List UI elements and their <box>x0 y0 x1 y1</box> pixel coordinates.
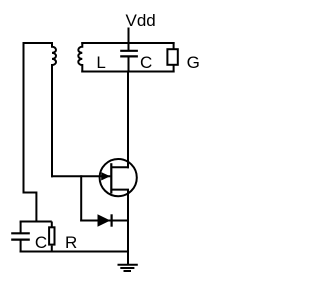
component G top lead <box>173 42 175 50</box>
inductor feedback coil <box>52 42 56 70</box>
diode D1 triangle <box>98 214 111 226</box>
wire left main vertical <box>24 42 37 223</box>
component G bottom lead <box>173 65 175 73</box>
wire top-left horizontal <box>23 42 53 44</box>
wire drain vertical <box>127 72 129 169</box>
wire Vdd lead <box>128 28 130 45</box>
component G box <box>167 49 177 65</box>
resistor R top lead <box>51 222 53 228</box>
ground symbol <box>118 265 138 271</box>
wire tank bottom rail <box>81 71 174 73</box>
capacitor C top plate <box>120 50 138 52</box>
transistor Q1 circle <box>100 159 137 196</box>
svg-text:G: G <box>187 53 200 72</box>
diode D1 cathode bar <box>110 214 112 226</box>
wire ground rail <box>20 251 128 253</box>
capacitor C top lead <box>128 43 130 51</box>
wire RC top rail <box>20 221 52 223</box>
capacitor C2 top plate <box>11 232 30 234</box>
svg-text:R: R <box>65 233 77 252</box>
wire diode row <box>80 220 128 222</box>
svg-text:C: C <box>140 53 152 72</box>
wire diode branch vertical <box>80 175 82 221</box>
capacitor C2 bottom lead <box>20 240 22 253</box>
capacitor C2 top lead <box>20 222 22 234</box>
capacitor C bottom lead <box>128 56 130 72</box>
resistor R bottom lead <box>51 246 53 253</box>
transistor Q1 source lead <box>111 190 128 196</box>
resistor R body <box>49 227 54 244</box>
wire tank top rail <box>81 42 174 44</box>
wire coil to gate vertical <box>51 66 53 178</box>
capacitor C bottom plate <box>120 55 138 57</box>
transistor Q1 gate arrow <box>101 172 110 180</box>
capacitor C2 bottom plate <box>11 239 30 241</box>
svg-text:C: C <box>35 233 47 252</box>
wire source vertical <box>127 190 129 265</box>
wire gate horizontal <box>51 175 110 177</box>
svg-text:Vdd: Vdd <box>126 11 156 30</box>
svg-text:L: L <box>96 53 105 72</box>
transistor Q1 drain lead <box>111 160 128 167</box>
transistor Q1 channel bar <box>110 163 112 193</box>
inductor L <box>78 42 82 73</box>
